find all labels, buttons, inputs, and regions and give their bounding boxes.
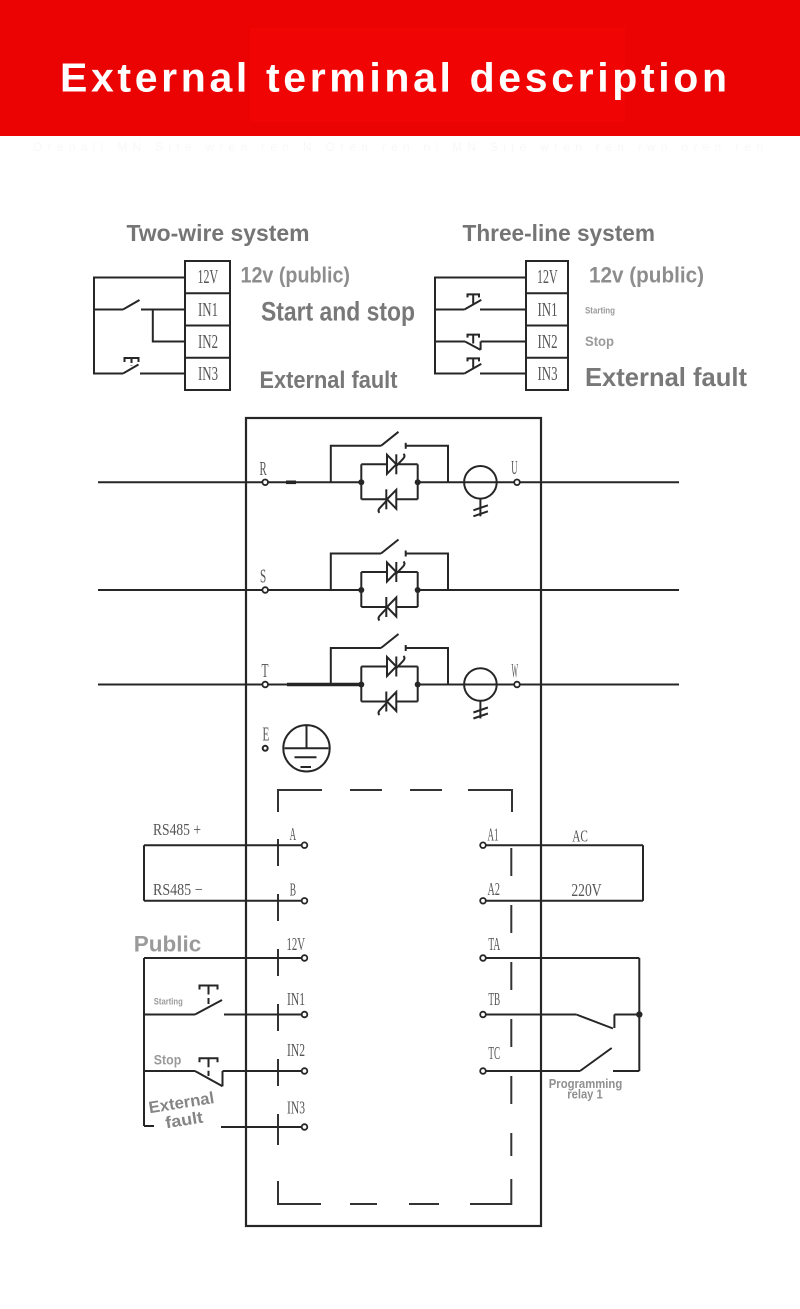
svg-text:A2: A2 bbox=[488, 879, 500, 899]
svg-text:12V: 12V bbox=[537, 267, 558, 288]
svg-text:TC: TC bbox=[488, 1043, 500, 1063]
svg-text:RS485 −: RS485 − bbox=[153, 880, 203, 899]
svg-text:E: E bbox=[263, 725, 270, 746]
svg-text:Starting: Starting bbox=[585, 306, 615, 317]
svg-text:RS485 +: RS485 + bbox=[153, 820, 201, 839]
svg-text:IN1: IN1 bbox=[198, 300, 218, 321]
svg-text:IN3: IN3 bbox=[198, 364, 218, 385]
svg-text:Two-wire system: Two-wire system bbox=[127, 220, 310, 246]
svg-text:IN1: IN1 bbox=[287, 989, 305, 1009]
svg-text:Stop: Stop bbox=[585, 334, 614, 349]
svg-text:U: U bbox=[511, 458, 517, 479]
svg-text:A: A bbox=[290, 824, 296, 844]
svg-text:12V: 12V bbox=[198, 267, 219, 288]
svg-text:12v (public): 12v (public) bbox=[589, 263, 704, 288]
svg-text:External fault: External fault bbox=[260, 367, 398, 394]
svg-text:R: R bbox=[260, 459, 267, 480]
svg-text:IN3: IN3 bbox=[287, 1098, 305, 1118]
svg-text:TB: TB bbox=[488, 989, 500, 1009]
svg-text:W: W bbox=[512, 661, 519, 682]
svg-text:AC: AC bbox=[572, 827, 588, 846]
svg-text:Three-line system: Three-line system bbox=[463, 220, 656, 246]
svg-text:IN3: IN3 bbox=[538, 364, 558, 385]
svg-text:Public: Public bbox=[134, 931, 202, 956]
svg-text:IN1: IN1 bbox=[538, 300, 558, 321]
svg-text:IN2: IN2 bbox=[538, 332, 558, 353]
svg-text:B: B bbox=[290, 879, 296, 899]
svg-text:Stop: Stop bbox=[154, 1053, 182, 1068]
svg-text:External fault: External fault bbox=[585, 362, 747, 392]
svg-text:Start and stop: Start and stop bbox=[261, 297, 415, 327]
svg-text:12V: 12V bbox=[287, 934, 306, 954]
svg-text:IN2: IN2 bbox=[198, 332, 218, 353]
svg-text:S: S bbox=[260, 567, 266, 588]
svg-text:220V: 220V bbox=[571, 880, 601, 900]
svg-text:T: T bbox=[262, 661, 269, 682]
svg-text:A1: A1 bbox=[488, 825, 499, 845]
svg-text:relay 1: relay 1 bbox=[567, 1088, 603, 1102]
svg-text:Starting: Starting bbox=[154, 997, 183, 1008]
svg-text:12v (public): 12v (public) bbox=[241, 263, 351, 288]
svg-text:IN2: IN2 bbox=[287, 1040, 305, 1060]
svg-text:TA: TA bbox=[488, 934, 500, 954]
